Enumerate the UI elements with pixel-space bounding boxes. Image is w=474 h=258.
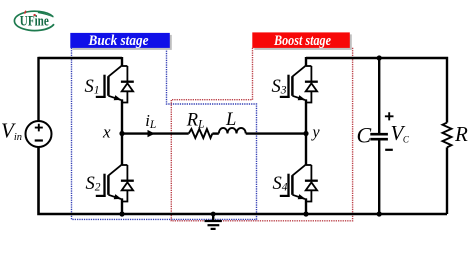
svg-text:L: L	[225, 110, 236, 130]
svg-text:x: x	[102, 123, 111, 142]
svg-text:C: C	[357, 122, 372, 147]
svg-text:Buck stage: Buck stage	[88, 33, 149, 49]
svg-text:R: R	[454, 122, 468, 146]
svg-text:y: y	[311, 124, 321, 141]
svg-text:Boost stage: Boost stage	[273, 33, 331, 49]
